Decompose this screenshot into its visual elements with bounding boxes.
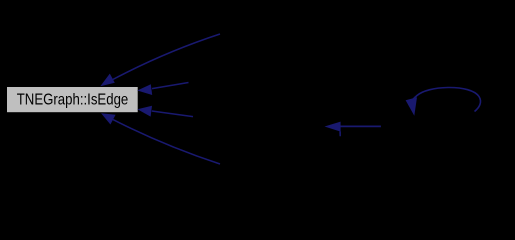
- edge from caller to node right side (upper): [137, 83, 188, 96]
- edge from bottom caller to node (curved): [101, 113, 220, 164]
- svg-text:TNEGraph::IsEdge: TNEGraph::IsEdge: [17, 92, 129, 109]
- horizontal edge between right-side callers: [325, 122, 381, 132]
- edge from caller to node right side (lower): [137, 106, 193, 117]
- edge from top caller to node (curved): [100, 34, 220, 86]
- small stub below horizontal arrowhead: [339, 132, 341, 137]
- node TNEGraph::IsEdge (current function box): [7, 87, 138, 112]
- self-loop edge (recursive caller): [406, 87, 481, 115]
